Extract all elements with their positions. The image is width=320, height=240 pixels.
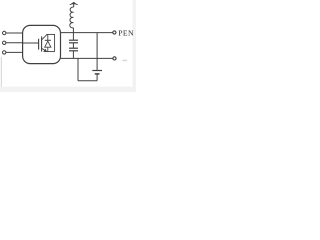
wire terminal3 to box [6,51,23,53]
capacitor C2 plates [69,47,78,49]
terminal 2 (middle left) [2,41,5,44]
wire vertical drop left of ground rail [77,58,79,80]
capacitor C1-C2 middle lead [72,43,74,48]
inductor L1 top stub [73,3,75,7]
capacitor C3 bottom lead [96,75,98,81]
faint table border left [0,57,2,87]
capacitor C1 plates [69,39,78,41]
wire bottom bus [61,57,113,59]
IGBT Q1 emitter arrowhead [44,49,47,52]
right gray margin [132,0,136,92]
inductor L1 arrow tip [70,2,78,5]
capacitor C3 top lead (from top bus crossing bottom bus) [96,33,98,71]
terminal 1 (top left) [2,31,5,34]
diode D1 cathode lead [47,34,49,40]
IGBT Q1 body bar [41,36,43,51]
capacitor C3 top plate [92,70,102,72]
faint mark right of bottom terminal [122,60,127,62]
capacitor C1 top lead [72,33,74,40]
internal node wire top [47,33,55,35]
IGBT Q1 emitter lead [42,48,47,51]
capacitor C3 bottom plate [95,73,100,75]
inductor L1 coil [70,7,74,28]
terminal N (bottom right) [113,57,116,60]
diode D1 anode lead [47,47,49,51]
IGBT Q1 gate lead [23,42,39,44]
wire terminal2 to box [6,42,23,44]
bottom gray margin [0,87,136,92]
page background [0,0,136,92]
wire top bus PEN [61,32,113,34]
diode D1 triangle [45,41,51,47]
inductor L1 bottom stub [72,28,74,33]
wire terminal1 to box [6,32,23,34]
capacitor C2 bottom lead [72,51,74,59]
svg-text:PEN: PEN [118,28,134,37]
IGBT Q1 collector lead [42,34,47,40]
terminal 3 (bottom left) [2,51,5,54]
IGBT Q1 gate bar [38,39,40,50]
internal right conductor [54,34,56,51]
converter box U1 [23,25,61,63]
diode D1 cathode bar [45,39,51,41]
internal node wire bottom [44,51,55,53]
terminal PEN [113,31,116,34]
ground rail [78,80,97,82]
